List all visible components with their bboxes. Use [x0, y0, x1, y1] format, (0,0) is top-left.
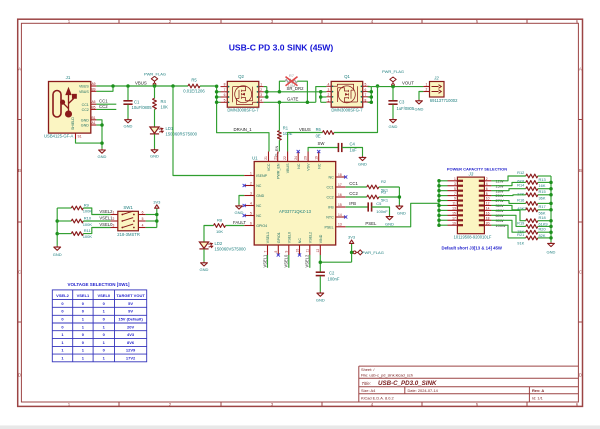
svg-text:CC1: CC1 [82, 103, 89, 107]
resistor R8 [204, 224, 244, 242]
title block [359, 366, 579, 402]
svg-text:VSEL1: VSEL1 [262, 254, 267, 267]
svg-text:15V (Default): 15V (Default) [118, 317, 143, 322]
svg-text:VBUS: VBUS [79, 85, 89, 89]
svg-text:B: B [579, 168, 582, 173]
ground SW1 resistors [54, 246, 61, 250]
junction [265, 95, 269, 99]
junction [376, 84, 380, 88]
svg-text:2: 2 [425, 88, 427, 92]
ground J2 [416, 100, 423, 104]
resistor R2 on CC1 [346, 185, 400, 189]
resistor R6 [288, 86, 378, 152]
svg-text:6: 6 [142, 211, 144, 215]
junction [549, 187, 553, 191]
junction [391, 85, 395, 89]
junction [549, 225, 553, 229]
svg-text:6: 6 [250, 221, 252, 225]
svg-text:22: 22 [283, 156, 287, 160]
wire SW1 to 3V3 [146, 209, 157, 228]
svg-text:TARGET VOUT: TARGET VOUT [116, 293, 145, 298]
svg-text:GND: GND [53, 252, 62, 257]
svg-text:1uF/0805: 1uF/0805 [397, 106, 415, 111]
svg-text:R4: R4 [161, 99, 167, 104]
svg-text:A: A [18, 67, 21, 72]
svg-text:R18: R18 [539, 215, 546, 220]
svg-text:CC2: CC2 [326, 196, 333, 200]
junction [437, 214, 441, 218]
svg-text:3: 3 [250, 191, 252, 195]
svg-text:9: 9 [285, 251, 289, 253]
svg-text:GND: GND [316, 297, 325, 302]
svg-text:7: 7 [263, 251, 267, 253]
junction [437, 204, 441, 208]
svg-text:1: 1 [112, 211, 114, 215]
svg-text:A1: A1 [91, 121, 95, 125]
svg-text:J3: J3 [468, 171, 474, 176]
svg-text:8: 8 [486, 192, 488, 196]
svg-text:10uF/0805: 10uF/0805 [132, 105, 153, 110]
svg-text:Q2: Q2 [238, 74, 244, 79]
svg-text:NC: NC [317, 163, 321, 169]
svg-text:D: D [579, 373, 582, 378]
svg-text:3V3: 3V3 [348, 235, 356, 240]
svg-text:GND: GND [81, 124, 89, 128]
svg-text:VSEL2: VSEL2 [99, 209, 113, 214]
svg-text:C: C [18, 270, 21, 275]
wire IC gnd pin [239, 196, 244, 205]
svg-text:R3: R3 [381, 189, 387, 194]
svg-text:R17: R17 [539, 204, 546, 209]
resistor R16 [491, 201, 551, 206]
capacitor C4 [308, 143, 362, 156]
svg-text:PWR_FLAG: PWR_FLAG [382, 69, 404, 74]
svg-text:VSEL2: VSEL2 [308, 232, 312, 243]
resistor R9 [57, 206, 110, 214]
svg-text:VSEL1: VSEL1 [77, 293, 90, 298]
svg-text:Title:: Title: [362, 381, 372, 386]
svg-text:VSEL2: VSEL2 [56, 293, 69, 298]
wire VBUS main [96, 85, 188, 87]
svg-text:19: 19 [314, 156, 318, 160]
junction [437, 184, 441, 188]
svg-text:PWR_EN: PWR_EN [276, 163, 280, 179]
svg-text:17V2: 17V2 [126, 355, 136, 360]
svg-text:R12: R12 [517, 170, 524, 175]
svg-text:16: 16 [486, 212, 490, 216]
resistor R13 [491, 181, 551, 186]
svg-text:VOUT: VOUT [402, 81, 414, 86]
svg-text:B9: B9 [91, 87, 95, 91]
svg-text:218-3MSTR: 218-3MSTR [117, 232, 140, 237]
junction [155, 213, 159, 217]
svg-text:1: 1 [260, 83, 262, 87]
resistor R21 [491, 225, 551, 240]
svg-text:VBUS: VBUS [286, 163, 290, 173]
svg-text:GND: GND [385, 221, 394, 226]
svg-text:14: 14 [338, 213, 342, 217]
LED LD2 [199, 242, 212, 249]
svg-text:10K: 10K [161, 104, 169, 109]
svg-text:4: 4 [250, 201, 252, 205]
svg-text:VBUS: VBUS [299, 127, 311, 132]
svg-text:100K: 100K [83, 234, 93, 239]
svg-text:GND: GND [98, 154, 107, 159]
wire VBUS pin B9 [96, 86, 113, 91]
svg-text:SW1: SW1 [123, 205, 133, 210]
svg-text:VBUS: VBUS [79, 90, 89, 94]
junction [153, 84, 157, 88]
junction [350, 251, 354, 255]
svg-text:J2: J2 [433, 75, 439, 80]
svg-text:R7: R7 [289, 73, 295, 78]
svg-text:B: B [18, 168, 21, 173]
svg-text:20: 20 [304, 156, 308, 160]
resistor R10 [57, 219, 110, 223]
svg-text:10M: 10M [288, 83, 296, 88]
svg-text:CC1: CC1 [326, 186, 333, 190]
wire J2 gnd [419, 92, 423, 100]
svg-text:0E: 0E [316, 133, 321, 138]
junction [437, 219, 441, 223]
svg-text:GND: GND [415, 106, 424, 111]
svg-text:B5: B5 [91, 105, 95, 109]
svg-text:KiCad E.D.A. 8.0.2: KiCad E.D.A. 8.0.2 [361, 396, 394, 401]
svg-text:Id: 1/1: Id: 1/1 [532, 396, 543, 401]
svg-text:VSEL2: VSEL2 [305, 254, 310, 267]
svg-text:R14: R14 [517, 183, 525, 188]
junction [278, 101, 282, 105]
switch SW1 [111, 211, 146, 231]
wire VSEL1 [267, 255, 269, 268]
svg-text:5K1: 5K1 [381, 197, 389, 202]
svg-text:CC2: CC2 [99, 104, 108, 109]
svg-text:7: 7 [224, 88, 226, 92]
svg-text:19: 19 [452, 221, 456, 225]
wire GND pins [96, 120, 102, 149]
svg-text:R19: R19 [517, 220, 524, 225]
ground LD1 [151, 149, 158, 153]
svg-text:GND: GND [547, 250, 556, 255]
svg-text:GPIO1: GPIO1 [277, 232, 281, 243]
svg-text:R9: R9 [84, 202, 90, 207]
svg-text:VBUS: VBUS [135, 80, 147, 85]
junction [370, 101, 374, 105]
resistor R7 (DNP) [279, 77, 307, 103]
svg-text:1: 1 [425, 83, 427, 87]
connector J1 USB-C [49, 82, 97, 140]
svg-text:4V3: 4V3 [127, 332, 135, 337]
svg-text:18: 18 [486, 216, 490, 220]
svg-text:NC: NC [297, 163, 301, 169]
svg-text:12V9: 12V9 [126, 348, 136, 353]
svg-text:Rev: A: Rev: A [532, 388, 544, 393]
wire ISENP sense [173, 86, 244, 176]
svg-text:150060RS75000: 150060RS75000 [166, 131, 198, 136]
svg-text:NC: NC [256, 184, 262, 188]
svg-text:A: A [579, 67, 582, 72]
svg-text:8V6: 8V6 [127, 340, 135, 345]
resistor R1 [278, 102, 282, 151]
svg-text:3: 3 [454, 182, 456, 186]
svg-text:LD2: LD2 [215, 241, 223, 246]
wire VSEL gnd bus [56, 208, 58, 246]
junction [437, 199, 441, 203]
junction [100, 141, 104, 145]
svg-text:7: 7 [364, 93, 366, 97]
junction [319, 95, 323, 99]
junction [215, 101, 219, 105]
svg-text:PWR_FLAG: PWR_FLAG [144, 71, 166, 76]
power 3V3 SW1 [155, 205, 159, 208]
svg-text:DRAIN_1: DRAIN_1 [234, 127, 253, 132]
svg-text:D: D [18, 373, 21, 378]
junction [55, 232, 59, 236]
svg-text:3: 3 [327, 88, 329, 92]
svg-text:VSV: VSV [307, 163, 311, 171]
svg-text:2: 2 [250, 181, 252, 185]
resistor R3 on CC2 [346, 187, 400, 205]
svg-text:VIND: VIND [319, 234, 323, 243]
svg-text:IFB: IFB [328, 206, 334, 210]
ground C2 [317, 292, 324, 296]
svg-text:5: 5 [224, 98, 226, 102]
junction [215, 84, 219, 88]
svg-text:1uF: 1uF [350, 147, 358, 152]
svg-text:Date: 2024-07-14: Date: 2024-07-14 [408, 388, 439, 393]
junction [549, 219, 553, 223]
svg-text:GATE: GATE [287, 97, 299, 102]
svg-text:11: 11 [452, 202, 456, 206]
svg-text:GND: GND [81, 118, 89, 122]
junction [319, 260, 323, 264]
svg-text:2: 2 [260, 88, 262, 92]
resistor R15 [491, 193, 551, 197]
svg-text:NC: NC [256, 204, 262, 208]
svg-text:691137710002: 691137710002 [430, 98, 458, 103]
wire resistor bank gnd bus [550, 176, 552, 242]
node wattage labels [496, 178, 506, 227]
wire GND pin A1 [96, 124, 102, 126]
ground C5 [386, 215, 393, 219]
svg-text:NC: NC [328, 176, 334, 180]
resistor R4 [153, 86, 157, 127]
svg-text:27K: 27K [517, 191, 524, 196]
svg-text:R5: R5 [191, 78, 197, 83]
svg-text:3: 3 [112, 224, 114, 228]
svg-text:17: 17 [452, 216, 456, 220]
svg-text:36K: 36K [539, 195, 546, 200]
svg-text:5: 5 [364, 83, 366, 87]
svg-text:IFB: IFB [349, 201, 356, 206]
junction [155, 219, 159, 223]
svg-text:3V3: 3V3 [153, 199, 161, 204]
svg-text:3: 3 [260, 93, 262, 97]
capacitor C2 [316, 255, 352, 292]
wire shield to GND [76, 139, 103, 143]
svg-text:USB-C PD 3.0 SINK (45W): USB-C PD 3.0 SINK (45W) [229, 43, 334, 53]
svg-text:CC2: CC2 [349, 191, 358, 196]
svg-text:7: 7 [454, 192, 456, 196]
svg-text:C3: C3 [399, 99, 405, 104]
svg-text:DMN3008SFG-7: DMN3008SFG-7 [331, 108, 363, 113]
junction [55, 219, 59, 223]
junction [437, 209, 441, 213]
junction [319, 90, 323, 94]
resistor R18 [491, 210, 551, 222]
svg-text:13: 13 [452, 207, 456, 211]
svg-text:150060VS75000: 150060VS75000 [215, 247, 247, 252]
svg-text:16: 16 [338, 193, 342, 197]
svg-text:5: 5 [142, 217, 144, 221]
svg-text:R15: R15 [539, 189, 546, 194]
junction [370, 95, 374, 99]
svg-text:18: 18 [338, 173, 342, 177]
junction [100, 123, 104, 127]
junction [398, 195, 402, 199]
svg-text:SHIELD: SHIELD [71, 117, 75, 130]
junction [370, 90, 374, 94]
svg-text:ISENP: ISENP [256, 174, 267, 178]
svg-text:S1: S1 [78, 135, 82, 139]
svg-text:2: 2 [112, 217, 114, 221]
svg-text:82K: 82K [539, 233, 546, 238]
svg-text:100K: 100K [83, 209, 93, 214]
svg-text:R10: R10 [84, 215, 92, 220]
ground J1 [99, 149, 106, 153]
transistor Q2 [221, 81, 264, 107]
PWR_FLAG on VBUS [151, 76, 157, 86]
svg-text:4: 4 [142, 224, 144, 228]
wire SR_DR2 net [264, 87, 327, 103]
transistor Q1 [326, 81, 369, 107]
svg-text:VSEL1: VSEL1 [266, 232, 270, 243]
svg-text:10119508-920010LF: 10119508-920010LF [454, 235, 492, 240]
svg-text:11: 11 [306, 249, 310, 253]
svg-text:R2: R2 [381, 179, 387, 184]
junction [437, 194, 441, 198]
svg-text:Size: A4: Size: A4 [361, 388, 376, 393]
svg-text:VSEL0: VSEL0 [284, 254, 289, 267]
svg-text:1: 1 [250, 171, 252, 175]
svg-text:R8: R8 [217, 218, 223, 223]
svg-text:5: 5 [454, 187, 456, 191]
svg-text:10K: 10K [216, 229, 223, 234]
junction [437, 179, 441, 183]
svg-text:20: 20 [486, 221, 490, 225]
wire VSEL0 [288, 255, 290, 268]
svg-text:FAULT: FAULT [233, 220, 246, 225]
svg-text:16K: 16K [539, 183, 546, 188]
svg-text:GND: GND [256, 194, 264, 198]
PWR_FLAG on VOUT [390, 77, 396, 87]
svg-text:R20: R20 [539, 227, 547, 232]
svg-text:A5: A5 [91, 100, 95, 104]
svg-text:8: 8 [224, 83, 226, 87]
svg-text:GND: GND [397, 211, 406, 216]
svg-text:NC: NC [256, 214, 262, 218]
resistor R11 [57, 228, 110, 236]
svg-text:10: 10 [295, 249, 299, 253]
resistor R5 [188, 84, 217, 88]
svg-text:C: C [579, 270, 582, 275]
PWR_FLAG on 3V3 [353, 250, 362, 255]
junction [549, 202, 553, 206]
svg-text:2: 2 [486, 177, 488, 181]
svg-text:8: 8 [364, 98, 366, 102]
junction [111, 84, 115, 88]
wire 3V3 riser [351, 244, 353, 262]
svg-text:6: 6 [224, 93, 226, 97]
capacitor C5 on IFB [346, 202, 390, 215]
svg-text:10: 10 [486, 197, 490, 201]
svg-text:PSEL: PSEL [365, 221, 377, 226]
svg-text:14: 14 [486, 207, 490, 211]
svg-text:0.01E/1206: 0.01E/1206 [183, 89, 205, 94]
svg-text:VSEL1: VSEL1 [99, 216, 113, 221]
svg-text:DMN3008SFG-7: DMN3008SFG-7 [227, 108, 259, 113]
svg-text:4: 4 [260, 98, 262, 102]
svg-text:13: 13 [338, 223, 342, 227]
svg-text:1: 1 [454, 177, 456, 181]
svg-text:23: 23 [273, 156, 277, 160]
wire PSEL net [346, 203, 439, 227]
svg-text:PWR_FLAG: PWR_FLAG [362, 250, 384, 255]
svg-text:GND: GND [235, 210, 244, 215]
svg-text:R16: R16 [517, 197, 524, 202]
wire LD2 gnd [203, 249, 205, 261]
ground C1 [125, 119, 132, 123]
resistor R19 [491, 215, 551, 228]
svg-text:Sheet: /: Sheet: / [361, 367, 375, 372]
wire DRAIN_1 bus [217, 86, 269, 152]
svg-text:USB-C_PD3.0_SINK: USB-C_PD3.0_SINK [378, 380, 437, 387]
wire VOUT net [368, 87, 424, 103]
connector J3 [448, 177, 492, 234]
svg-text:C5: C5 [376, 201, 382, 206]
svg-text:100nF: 100nF [376, 209, 388, 214]
junction [437, 189, 441, 193]
svg-text:6: 6 [364, 88, 366, 92]
svg-text:SW: SW [318, 141, 326, 146]
svg-text:Default short J3[13 & 14] 45W: Default short J3[13 & 14] 45W [442, 246, 503, 251]
junction [265, 90, 269, 94]
junction [549, 181, 553, 185]
svg-text:9: 9 [454, 197, 456, 201]
junction [549, 230, 553, 234]
junction [278, 90, 282, 94]
svg-text:AP33771QKZ-13: AP33771QKZ-13 [279, 209, 312, 214]
svg-text:GND: GND [358, 162, 367, 167]
junction [215, 95, 219, 99]
svg-text:GPIO4: GPIO4 [256, 224, 267, 228]
svg-text:USB4125-GF-A: USB4125-GF-A [44, 134, 74, 139]
svg-text:1: 1 [327, 98, 329, 102]
junction [437, 223, 441, 227]
resistor R14 [491, 187, 551, 191]
svg-text:File: usb-c_pd_sink.kicad_sch: File: usb-c_pd_sink.kicad_sch [361, 373, 413, 378]
svg-text:61K9: 61K9 [539, 221, 548, 226]
svg-text:100K: 100K [83, 222, 93, 227]
svg-text:100nF: 100nF [328, 276, 340, 281]
svg-text:R11: R11 [84, 228, 92, 233]
svg-text:R13: R13 [539, 177, 546, 182]
svg-text:C2: C2 [329, 271, 335, 276]
svg-text:4: 4 [327, 83, 329, 87]
wire GATE net [264, 87, 327, 103]
svg-text:NC: NC [298, 238, 302, 244]
junction [549, 193, 553, 197]
